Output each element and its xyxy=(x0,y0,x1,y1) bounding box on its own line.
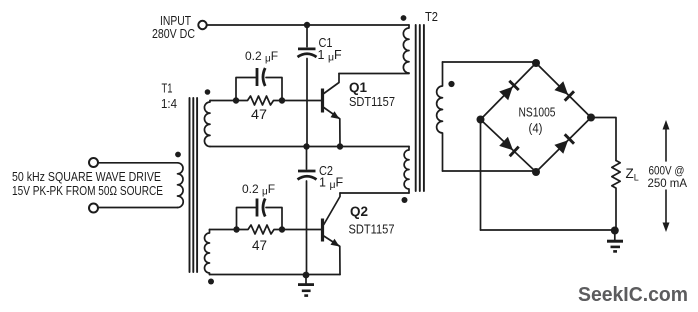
svg-text:SeekIC.com: SeekIC.com xyxy=(578,283,688,306)
node RC1 right xyxy=(279,97,285,103)
node bridge left xyxy=(477,116,485,124)
capacitor 0.2uF lower xyxy=(237,199,283,228)
wire T1 upper secondary top lead xyxy=(210,100,233,102)
capacitor C1 xyxy=(298,49,317,57)
transformer T1 primary phase dot xyxy=(175,152,181,158)
svg-text:250 mA: 250 mA xyxy=(648,176,688,190)
transformer T2 upper primary winding xyxy=(403,25,409,73)
output arrow 600V xyxy=(663,120,670,232)
wire C2 lower lead xyxy=(306,181,308,275)
ground (right) xyxy=(607,231,623,251)
wire bottom output rail xyxy=(481,229,615,231)
svg-text:SDT1157: SDT1157 xyxy=(349,95,395,109)
svg-text:Q2: Q2 xyxy=(350,203,368,219)
transformer T2 secondary winding xyxy=(437,62,443,171)
wire mid rail xyxy=(210,146,409,148)
transformer T2 secondary phase dot xyxy=(448,81,454,87)
transistor Q1 xyxy=(323,74,341,147)
transformer T1 upper secondary winding xyxy=(204,101,210,147)
wire bridge left node down xyxy=(480,123,482,230)
label C1 1uF xyxy=(318,36,343,64)
node bridge bottom xyxy=(532,168,540,176)
label C2 1uF xyxy=(319,164,344,191)
node junction top rail / C1 xyxy=(304,22,310,28)
svg-text:47: 47 xyxy=(251,107,267,122)
transformer T2 lower primary winding xyxy=(404,147,409,194)
svg-text:0.2 μF: 0.2 μF xyxy=(242,182,275,198)
input terminal xyxy=(198,21,206,29)
node bridge right xyxy=(587,114,595,122)
capacitor 0.2uF upper xyxy=(236,68,282,99)
bridge rectifier NS1005 edges xyxy=(481,63,592,172)
drive terminal lower xyxy=(89,204,98,213)
transformer T2 core xyxy=(416,25,424,191)
node RC2 right xyxy=(279,226,285,232)
svg-text:50 kHz SQUARE WAVE DRIVE: 50 kHz SQUARE WAVE DRIVE xyxy=(12,170,161,184)
svg-text:INPUT: INPUT xyxy=(160,14,191,28)
wire C1 upper lead xyxy=(306,25,308,47)
svg-text:47: 47 xyxy=(252,238,267,253)
wire T2 upper winding to Q1 collector xyxy=(339,73,409,75)
svg-text:280V DC: 280V DC xyxy=(152,27,195,41)
label INPUT 280V DC xyxy=(152,14,195,41)
node bridge top xyxy=(532,59,540,67)
label T1 1:4 xyxy=(161,82,177,112)
resistor 47 (upper) xyxy=(236,96,282,105)
transformer T1 primary winding xyxy=(178,163,184,208)
capacitor C2 xyxy=(298,171,317,180)
transformer T1 core xyxy=(190,98,198,272)
svg-text:NS1005: NS1005 xyxy=(519,105,556,120)
svg-text:ZL: ZL xyxy=(626,166,639,183)
wire bridge right node to load xyxy=(591,118,616,161)
node RC1 left xyxy=(233,97,239,103)
wire Q1 base xyxy=(285,100,322,102)
label 600V @ 250 mA xyxy=(648,164,688,191)
svg-text:Q1: Q1 xyxy=(349,79,367,95)
node mid rail / C2 xyxy=(303,143,309,149)
resistor ZL xyxy=(612,161,620,231)
transformer T1 lower secondary winding xyxy=(205,230,210,275)
wire Q2 base xyxy=(285,229,322,231)
svg-text:15V PK-PK FROM 50Ω SOURCE: 15V PK-PK FROM 50Ω SOURCE xyxy=(12,184,163,198)
label Q1 SDT1157 xyxy=(349,79,395,109)
svg-text:0.2 μF: 0.2 μF xyxy=(245,49,278,65)
wire C2 upper lead xyxy=(306,147,308,170)
diode D4 bottom-right xyxy=(554,134,574,154)
transformer T2 phase dot lower xyxy=(402,197,408,203)
resistor 47 (lower) xyxy=(237,225,283,234)
drive terminal upper xyxy=(89,158,98,167)
wire T2 lower winding to Q2 collector xyxy=(340,192,409,194)
wire T2 secondary top to bridge xyxy=(443,61,537,63)
diode D1 top-left xyxy=(499,81,519,101)
label NS1005 (4) xyxy=(519,105,556,136)
svg-text:T1: T1 xyxy=(162,82,173,96)
svg-text:SDT1157: SDT1157 xyxy=(349,223,395,237)
transistor Q2 xyxy=(323,193,341,275)
label Q2 SDT1157 xyxy=(349,203,395,237)
svg-text:1:4: 1:4 xyxy=(161,97,177,111)
diode D3 bottom-left xyxy=(499,137,519,157)
wire C1 lower lead xyxy=(306,59,308,147)
node output ground xyxy=(611,227,619,235)
svg-text:1 μF: 1 μF xyxy=(318,48,343,64)
wire top rail xyxy=(207,24,409,26)
wire bottom rail xyxy=(210,274,341,276)
wire T1 lower secondary top lead xyxy=(210,229,234,231)
diode D2 top-right xyxy=(554,81,574,101)
ground (left) xyxy=(298,275,314,296)
node mid rail / Q1 emitter xyxy=(337,143,343,149)
transformer T1 upper secondary phase dot xyxy=(205,89,211,95)
transformer T1 lower secondary phase dot xyxy=(208,279,214,285)
node bottom rail / ground xyxy=(303,272,310,279)
svg-text:(4): (4) xyxy=(529,122,543,136)
node RC2 left xyxy=(233,226,239,232)
wire T2 secondary bottom to bridge xyxy=(443,170,537,172)
wire drive leads xyxy=(99,163,178,208)
transformer T2 phase dot upper xyxy=(401,15,407,21)
svg-text:T2: T2 xyxy=(425,10,438,24)
